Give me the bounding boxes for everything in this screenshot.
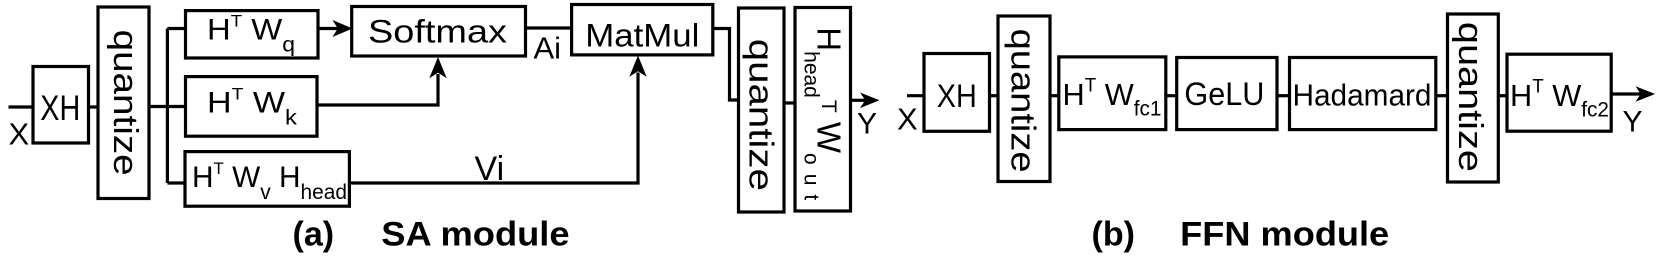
svg-text:Ai: Ai (534, 31, 562, 66)
svg-text:SA module: SA module (381, 216, 569, 254)
svg-text:XH: XH (937, 78, 977, 114)
svg-text:XH: XH (40, 89, 80, 128)
svg-text:Y: Y (857, 108, 877, 141)
svg-text:quantize: quantize (1004, 29, 1042, 173)
svg-text:MatMul: MatMul (585, 18, 699, 54)
svg-text:(b): (b) (1092, 216, 1135, 254)
svg-text:(a): (a) (293, 216, 335, 254)
svg-text:quantize: quantize (1451, 22, 1489, 172)
svg-text:X: X (9, 117, 30, 152)
svg-text:quantize: quantize (741, 39, 779, 191)
svg-text:Vi: Vi (475, 150, 505, 188)
svg-text:Y: Y (1623, 105, 1643, 138)
svg-text:Hadamard: Hadamard (1293, 78, 1432, 113)
svg-text:Softmax: Softmax (368, 14, 507, 50)
svg-text:X: X (897, 102, 918, 137)
svg-text:GeLU: GeLU (1184, 76, 1264, 112)
svg-text:quantize: quantize (106, 30, 144, 176)
svg-text:FFN module: FFN module (1180, 216, 1389, 254)
